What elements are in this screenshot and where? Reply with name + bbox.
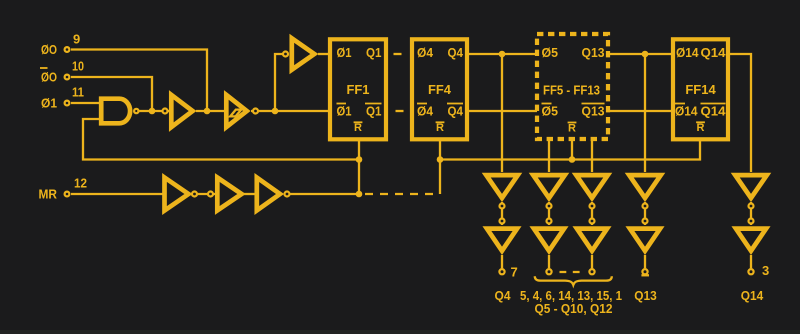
svg-text:3: 3	[762, 263, 769, 278]
svg-text:Q13: Q13	[634, 288, 657, 303]
svg-text:FF14: FF14	[685, 82, 716, 97]
svg-text:Q5 - Q10, Q12: Q5 - Q10, Q12	[535, 301, 613, 316]
svg-text:Q13: Q13	[582, 104, 605, 119]
svg-text:FF1: FF1	[347, 82, 370, 97]
svg-text:10: 10	[72, 59, 84, 74]
svg-text:Ø4: Ø4	[417, 45, 434, 60]
svg-text:Ø1: Ø1	[337, 104, 352, 119]
svg-text:Q4: Q4	[495, 288, 512, 303]
svg-text:Ø5: Ø5	[542, 45, 559, 60]
svg-text:Ø4: Ø4	[417, 104, 434, 119]
svg-text:FF4: FF4	[428, 82, 452, 97]
svg-text:Q1: Q1	[366, 104, 382, 119]
svg-text:MR: MR	[39, 187, 58, 202]
svg-text:FF5 - FF13: FF5 - FF13	[543, 83, 600, 98]
svg-text:Ø5: Ø5	[542, 104, 559, 119]
svg-text:Q1: Q1	[366, 45, 382, 60]
svg-text:Ø1: Ø1	[41, 96, 57, 111]
svg-text:R: R	[697, 122, 705, 134]
svg-text:Q14: Q14	[701, 104, 727, 119]
svg-text:ØO: ØO	[41, 70, 57, 85]
svg-text:Q14: Q14	[701, 45, 727, 60]
svg-text:12: 12	[74, 176, 87, 191]
svg-text:R: R	[436, 122, 444, 134]
svg-text:Ø14: Ø14	[676, 45, 699, 60]
svg-text:Q13: Q13	[582, 45, 605, 60]
svg-text:R: R	[354, 122, 362, 134]
svg-text:11: 11	[72, 85, 84, 100]
svg-text:9: 9	[73, 32, 80, 47]
svg-text:ØO: ØO	[41, 42, 57, 57]
svg-text:Q14: Q14	[741, 288, 764, 303]
svg-text:R: R	[568, 123, 576, 135]
svg-text:Ø1: Ø1	[337, 45, 352, 60]
svg-text:Q4: Q4	[448, 104, 464, 119]
svg-text:Q4: Q4	[448, 45, 464, 60]
svg-text:7: 7	[511, 265, 518, 280]
svg-text:Ø14: Ø14	[675, 104, 698, 119]
